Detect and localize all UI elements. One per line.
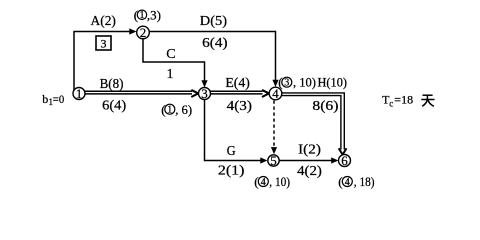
svg-text:3: 3	[101, 37, 107, 51]
svg-text:1: 1	[167, 67, 174, 82]
svg-text:I(2): I(2)	[298, 143, 321, 158]
svg-text:1: 1	[140, 10, 145, 21]
svg-text:, 10): , 10)	[293, 74, 316, 89]
svg-text:6(4): 6(4)	[102, 99, 126, 114]
svg-text:b: b	[42, 92, 48, 106]
svg-text:E(4): E(4)	[225, 76, 250, 91]
svg-text:, 18): , 18)	[354, 174, 375, 189]
svg-text:G: G	[227, 144, 236, 159]
svg-text:, 10): , 10)	[269, 174, 290, 189]
svg-text:4: 4	[261, 177, 266, 188]
svg-text:=18: =18	[394, 93, 413, 107]
svg-text:B(8): B(8)	[100, 77, 124, 92]
svg-text:4(3): 4(3)	[227, 99, 253, 114]
svg-text:C: C	[166, 47, 175, 62]
svg-text:,3): ,3)	[147, 7, 161, 22]
svg-text:2: 2	[140, 25, 147, 40]
svg-text:D(5): D(5)	[200, 14, 228, 29]
svg-text:c: c	[389, 99, 393, 109]
svg-text:8(6): 8(6)	[312, 99, 338, 114]
svg-text:, 6): , 6)	[175, 102, 192, 117]
svg-text:6(4): 6(4)	[202, 36, 228, 51]
svg-text:4(2): 4(2)	[297, 164, 322, 179]
svg-text:1: 1	[167, 105, 172, 116]
svg-text:6: 6	[341, 153, 348, 168]
svg-text:3: 3	[201, 86, 208, 101]
svg-text:A(2): A(2)	[91, 14, 117, 29]
svg-text:4: 4	[345, 177, 350, 188]
svg-text:2(1): 2(1)	[218, 164, 245, 179]
svg-text:H(10): H(10)	[318, 74, 348, 89]
svg-text:3: 3	[284, 78, 289, 89]
svg-text:1: 1	[76, 86, 83, 101]
svg-text:5: 5	[270, 153, 277, 168]
svg-text:=0: =0	[53, 92, 64, 106]
